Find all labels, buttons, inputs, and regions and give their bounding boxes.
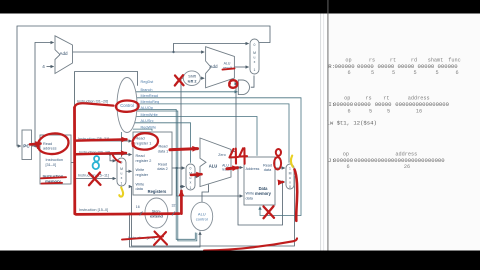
top letterbox bar [0, 0, 480, 14]
svg-text:0: 0 [289, 185, 291, 189]
svg-text:address: address [43, 147, 57, 151]
svg-text:RegDst: RegDst [141, 80, 155, 84]
svg-text:[31–0]: [31–0] [46, 163, 57, 167]
wire PC value up to Add (PC+4) [35, 43, 54, 147]
label mux MemtoReg pins [289, 166, 292, 189]
red X on instruction[15-11] [89, 173, 101, 185]
svg-text:000000: 000000 [438, 63, 459, 70]
svg-text:u: u [254, 56, 256, 60]
red mark 4 (first) on zero wire [230, 149, 239, 158]
svg-text:left 2: left 2 [188, 79, 197, 83]
mux RegDst [117, 158, 126, 186]
svg-text:Read: Read [158, 162, 167, 166]
svg-text:MemtoReg: MemtoReg [141, 100, 160, 104]
svg-text:Control: Control [120, 103, 134, 108]
node 20-16 junction [109, 153, 111, 155]
wire branch Add result to PCsrc mux input 1 [234, 66, 248, 68]
svg-text:x: x [254, 60, 256, 64]
red circle around Read address [38, 133, 69, 154]
wire PC to instruction memory read address [31, 145, 39, 147]
red mark 4 (second) on zero wire [239, 148, 247, 156]
wire shift-left-2 output to branch Add bottom input [200, 77, 204, 79]
wire MemRead to Data memory [136, 98, 302, 216]
svg-text:1: 1 [254, 68, 256, 72]
svg-text:Address: Address [246, 167, 260, 171]
svg-text:6: 6 [346, 164, 349, 170]
wire instruction[20-16] to Read register 2 [75, 154, 132, 156]
node bus tap 20-16 [74, 153, 76, 155]
svg-text:data: data [136, 187, 144, 191]
wire Read data 2 to ALUSrc mux input 0 [172, 167, 185, 169]
red figure-8 on Read data [276, 149, 281, 156]
red circle on Branch wire at AND gate [229, 80, 237, 88]
control unit oval [117, 78, 137, 133]
wire MemtoReg to MemtoReg mux select [136, 104, 289, 163]
node bus tap 15-11 [74, 177, 76, 179]
svg-text:ALUSrc: ALUSrc [141, 119, 154, 123]
svg-text:0: 0 [190, 166, 192, 170]
adder branch target [206, 47, 235, 88]
red trace instruction[25-21] with arrow [76, 139, 127, 140]
wire MemWrite to Data memory [135, 117, 257, 156]
red X on MemRead wire below data memory [264, 207, 275, 218]
red ellipse around Control [116, 101, 139, 112]
ALU main [200, 138, 231, 187]
svg-text:5: 5 [392, 70, 395, 76]
svg-text:control: control [196, 216, 208, 221]
svg-text:000000: 000000 [333, 157, 354, 164]
svg-text:Write: Write [136, 168, 145, 172]
svg-text:data: data [246, 196, 254, 200]
AND gate branch [238, 80, 249, 95]
svg-text:u: u [289, 176, 291, 180]
svg-text:Zero: Zero [218, 153, 225, 157]
svg-text:register: register [136, 173, 149, 177]
svg-text:6: 6 [347, 70, 350, 76]
svg-text:x: x [190, 180, 192, 184]
wire PC+4 to PCsrc mux input 0 [174, 44, 249, 53]
wire RegDst down to RegDst mux select [121, 132, 123, 157]
wire PC-source mux output feedback to PC [17, 26, 270, 146]
svg-text:Instruction: Instruction [46, 158, 64, 162]
svg-text:Write: Write [136, 182, 145, 186]
wire instruction bus vertical [74, 72, 76, 214]
red trace riser to ALUSrc mux [180, 191, 183, 214]
svg-text:data 2: data 2 [157, 167, 168, 171]
svg-text:1: 1 [289, 166, 291, 170]
adder PC+4 [55, 36, 73, 74]
svg-text:1: 1 [121, 182, 123, 186]
svg-text:5: 5 [371, 70, 374, 76]
svg-text:00000: 00000 [375, 101, 392, 108]
label mux PCsrc pins [253, 43, 256, 72]
right panel background [328, 13, 480, 251]
svg-text:00000: 00000 [418, 63, 435, 70]
svg-text:data 1: data 1 [158, 149, 169, 153]
wire instruction memory output to bus [71, 162, 75, 164]
svg-text:M: M [120, 167, 123, 171]
wire AND gate output to PCsrc mux select [251, 76, 254, 88]
red swoosh along bottom write-back [204, 238, 297, 250]
svg-text:00000: 00000 [398, 63, 415, 70]
svg-text:6: 6 [455, 70, 458, 76]
wire ALU control output to ALU [202, 185, 209, 203]
svg-text:00000: 00000 [357, 63, 374, 70]
svg-text:Add: Add [59, 51, 68, 56]
svg-text:MemWrite: MemWrite [141, 113, 158, 117]
svg-text:Add: Add [209, 64, 218, 69]
registers file [133, 132, 172, 195]
svg-text:RegWrite: RegWrite [141, 125, 157, 129]
wire ALUOp to ALU control (2-bit double line) [136, 109, 196, 239]
svg-text:5: 5 [435, 70, 438, 76]
bottom letterbox bar [0, 251, 480, 270]
sign extend oval [145, 198, 168, 228]
svg-text:register 1: register 1 [136, 141, 152, 145]
data memory [244, 157, 275, 205]
svg-text:0: 0 [254, 43, 256, 47]
red underline branch ALU result [223, 68, 235, 69]
PC register [22, 130, 32, 160]
svg-text:1: 1 [190, 186, 192, 190]
cyan figure-8 annotation near instruction[20-16] [93, 156, 99, 169]
svg-text:6: 6 [347, 108, 350, 114]
svg-text:000000: 000000 [333, 101, 354, 108]
svg-text:Instruction [15–0]: Instruction [15–0] [79, 208, 108, 212]
red strike instruction[5-0] [122, 236, 163, 239]
red circle around Read register 1 [133, 133, 158, 149]
svg-text:00000: 00000 [354, 101, 371, 108]
wire PC+4 from Add to junction [73, 51, 174, 53]
node PC tap junction [34, 145, 36, 147]
wire ALUSrc mux output to ALU bottom input [195, 176, 199, 178]
node PC+4 junction [172, 51, 174, 53]
svg-text:Registers: Registers [148, 189, 167, 194]
red trace instruction[20-16] with arrow [76, 153, 126, 154]
mux ALUSrc [186, 164, 195, 190]
svg-text:Branch: Branch [141, 88, 153, 92]
svg-text:Read: Read [136, 154, 145, 158]
svg-text:5: 5 [413, 70, 416, 76]
shift left 2 oval [183, 71, 200, 86]
red X on shift-left-2 [175, 76, 184, 86]
svg-text:data: data [264, 168, 272, 172]
svg-text:x: x [289, 180, 291, 184]
bus width slash 16 [140, 212, 143, 216]
svg-text:u: u [121, 172, 123, 176]
red arrow into MemtoReg mux input 0 [280, 181, 284, 184]
wire sign-extend output to riser [168, 213, 181, 215]
svg-text:Write: Write [246, 192, 255, 196]
wire ALU Zero to AND gate [231, 84, 237, 152]
bus width slash 32 [172, 212, 175, 216]
wire PC+4 into branch Add top input [174, 51, 205, 53]
wire constant 4 into Add [47, 66, 54, 68]
svg-text:Read: Read [263, 163, 272, 167]
label mux ALUSrc pins [189, 166, 192, 189]
svg-text:00000: 00000 [378, 63, 395, 70]
wire instruction[25-21] to Read register 1 [75, 140, 132, 142]
svg-text:16: 16 [136, 205, 140, 209]
svg-text:000000: 000000 [335, 63, 356, 70]
wire instruction[5-0] down and right to ALU control [130, 214, 201, 247]
wire instruction[15-0] to sign-extend [75, 213, 144, 215]
red swoosh from MemtoReg mux down [295, 170, 298, 221]
wire sign-extend riser up to shift-left-2 [181, 78, 183, 213]
wire Branch to AND gate [135, 91, 238, 93]
red trace instruction bus vertical [73, 108, 76, 214]
svg-text:4: 4 [42, 64, 45, 69]
svg-text:ALU: ALU [209, 164, 218, 169]
node riser tap to ALUSrc mux [180, 185, 182, 187]
svg-text:Shift: Shift [188, 74, 197, 78]
wire ALU result bypass to MemtoReg mux input 0 [238, 168, 285, 226]
svg-text:Read: Read [158, 145, 167, 149]
red arrow Read data 2 to mux [191, 173, 202, 176]
wire ALUSrc to ALUSrc mux select [134, 123, 191, 163]
red hook tracing instruction[20-16] drop to RegDst mux [113, 155, 121, 163]
wire instruction[20-16] down to RegDst mux input 0 [110, 155, 116, 161]
label mux RegDst pins [120, 161, 123, 186]
svg-text:16: 16 [416, 108, 422, 114]
mux MemtoReg [286, 164, 294, 189]
svg-text:Read: Read [136, 137, 145, 141]
red arrow PC to read address [30, 142, 41, 145]
slide edge faint border 1 [320, 14, 322, 251]
red arrow Read data 1 to ALU [170, 149, 198, 150]
slide edge faint border 2 [323, 14, 325, 251]
mux PCsrc [250, 39, 259, 74]
wire instruction[31-26] over the top into Control [75, 72, 138, 86]
wire ALU result to Data memory Address [231, 167, 243, 169]
svg-text:000000000000000000000000000: 000000000000000000000000000 [354, 157, 445, 164]
wire RegDst mux output to Write register [126, 170, 132, 172]
red trace bus to Control [75, 103, 114, 107]
red strike Instruction memory label [41, 177, 66, 178]
panel divider line [327, 0, 329, 14]
svg-text:u: u [190, 176, 192, 180]
svg-text:M: M [253, 51, 256, 55]
node instruction[5-0] tap [128, 212, 130, 214]
wire Read data 1 to ALU top input [172, 148, 199, 150]
ALU control oval [191, 202, 213, 230]
instruction memory [40, 135, 71, 184]
node bus tap 25-21 [74, 140, 76, 142]
svg-text:x: x [121, 176, 123, 180]
svg-text:lw $t1, 12($s4): lw $t1, 12($s4) [327, 120, 377, 127]
node Read data 2 junction [175, 167, 177, 169]
red X on instruction[5-0] [155, 232, 168, 245]
svg-text:M: M [289, 171, 292, 175]
node sign-extend output junction [180, 212, 182, 214]
red trace instruction[15-0] through sign-extend [76, 212, 179, 215]
node ALU result junction [237, 166, 239, 168]
svg-text:memory: memory [255, 191, 272, 196]
red arrow into Data memory Address [227, 168, 238, 169]
wire RegWrite to Registers [133, 129, 152, 131]
svg-text:Read: Read [43, 142, 52, 146]
wire Data memory Read data to MemtoReg mux input 1 [275, 167, 285, 169]
svg-text:5: 5 [387, 108, 390, 114]
svg-text:register 2: register 2 [136, 159, 152, 163]
wire instruction[15-11] to RegDst mux input 1 [75, 178, 116, 180]
wire MemtoReg mux output write-back to Registers Write data [132, 177, 295, 247]
svg-text:0000000000000000: 0000000000000000 [395, 101, 449, 108]
svg-text:5: 5 [369, 108, 372, 114]
svg-text:ALUOp: ALUOp [141, 106, 153, 110]
wire sign-extended value to ALUSrc mux input 1 [181, 186, 185, 188]
yellow squiggle at MemtoReg mux [291, 156, 293, 167]
svg-text:26: 26 [404, 164, 410, 170]
yellow squiggle at RegDst mux [119, 188, 123, 197]
svg-text:32: 32 [172, 204, 176, 208]
wire Read data 2 down to Data memory Write data [177, 168, 243, 196]
svg-text:MemRead: MemRead [141, 94, 159, 98]
